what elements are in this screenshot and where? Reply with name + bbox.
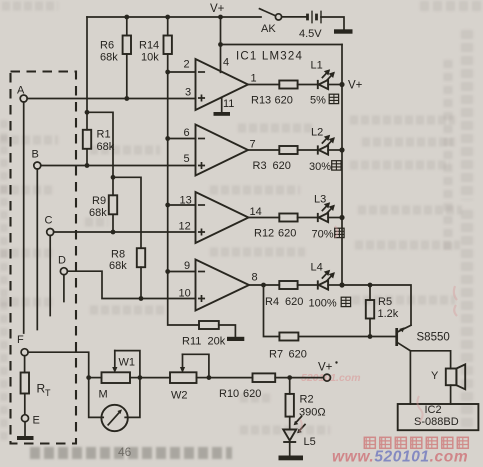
svg-text:R4: R4 — [265, 296, 279, 308]
node pin13 — [165, 203, 170, 208]
node W1 right junction — [138, 375, 143, 380]
label 100% orange — [309, 297, 351, 309]
wire R7 to base — [298, 336, 396, 338]
node R1 top — [85, 110, 90, 115]
wire pin2 — [168, 71, 196, 73]
wire pin 4 — [220, 45, 222, 73]
svg-text:R3: R3 — [253, 160, 267, 172]
LED L1 — [318, 70, 334, 89]
svg-text:F: F — [17, 334, 24, 346]
svg-text:R10: R10 — [219, 388, 239, 400]
svg-text:A: A — [17, 85, 25, 97]
svg-text:68k: 68k — [100, 52, 118, 64]
resistor R8 — [109, 248, 145, 298]
svg-text:AK: AK — [261, 23, 276, 35]
LED L3 — [318, 203, 334, 222]
resistor R6 — [100, 17, 131, 99]
op-amp U1A — [184, 59, 257, 111]
svg-text:L1: L1 — [311, 60, 323, 72]
resistor R9 — [89, 177, 117, 232]
svg-text:68k: 68k — [109, 260, 127, 272]
resistor R7 — [269, 333, 307, 361]
svg-text:5%: 5% — [310, 95, 326, 107]
wire pin12 from C — [54, 231, 196, 233]
svg-text:6: 6 — [184, 127, 190, 139]
svg-text:14: 14 — [250, 206, 262, 218]
resistor R10 — [219, 373, 275, 400]
node R5 bottom — [368, 334, 373, 339]
ground L5 — [289, 442, 291, 456]
resistor R3 — [253, 146, 298, 172]
wire R10 to node — [275, 377, 290, 379]
wire V+ branch to pin4 and LED rail — [220, 17, 222, 45]
svg-text:W1: W1 — [119, 357, 136, 369]
svg-text:R5: R5 — [378, 296, 392, 308]
terminal B — [34, 162, 41, 169]
potentiometer W1 — [89, 351, 140, 383]
wire L4 to rail node — [328, 284, 342, 286]
svg-text:V+: V+ — [348, 80, 363, 92]
node divider mid — [111, 175, 116, 180]
resistor R2 — [286, 378, 326, 430]
svg-text:R12: R12 — [254, 228, 274, 240]
resistor R11 and ground — [182, 321, 244, 348]
wire pin5 from B — [41, 165, 196, 167]
svg-text:620: 620 — [275, 95, 293, 107]
row 3 output: wire pin14 to R12 — [249, 217, 280, 219]
svg-text:R2: R2 — [300, 394, 314, 406]
wire R4 to L4 — [298, 284, 318, 286]
wire R12 to L3 — [298, 217, 318, 219]
svg-text:390Ω: 390Ω — [299, 407, 326, 419]
potentiometer W2 — [170, 354, 209, 401]
svg-text:E: E — [33, 415, 40, 427]
svg-text:L3: L3 — [314, 194, 326, 206]
wire pin10 from D — [67, 271, 195, 298]
svg-text:68k: 68k — [97, 141, 115, 153]
svg-text:70%: 70% — [312, 229, 334, 241]
svg-text:1.2k: 1.2k — [378, 308, 399, 320]
node R6 top — [124, 15, 129, 20]
node R9 bottom — [111, 230, 116, 235]
node R1 bottom — [85, 163, 90, 168]
wire probe A — [23, 102, 25, 333]
svg-text:1: 1 — [251, 73, 257, 85]
svg-text:R8: R8 — [111, 249, 125, 261]
node pin6 — [165, 136, 170, 141]
terminal E — [22, 415, 29, 422]
wire R13 to L1 — [298, 84, 318, 86]
svg-text:R14: R14 — [139, 40, 159, 52]
meter M — [89, 378, 140, 432]
svg-text:D: D — [58, 255, 66, 267]
label 30% green — [309, 161, 341, 173]
wire divider branch — [87, 112, 113, 177]
svg-text:620: 620 — [278, 228, 296, 240]
svg-text:68k: 68k — [89, 207, 107, 219]
wire pin13 — [168, 204, 196, 206]
row 2 output: wire pin7 to R3 — [248, 149, 279, 151]
svg-text:R6: R6 — [100, 40, 114, 52]
wire R3 to L2 — [298, 149, 318, 151]
label 5% red — [310, 94, 339, 106]
ground pin 11 — [214, 98, 235, 116]
wire L2 to rail — [328, 149, 342, 151]
wire W2 to R10 — [209, 377, 253, 379]
svg-text:W2: W2 — [171, 390, 188, 402]
svg-text:30%: 30% — [309, 161, 331, 173]
svg-text:R13: R13 — [251, 95, 271, 107]
svg-text:S8550: S8550 — [417, 332, 450, 344]
svg-text:2: 2 — [184, 59, 190, 71]
svg-text:620: 620 — [285, 296, 303, 308]
terminal V+* — [324, 374, 331, 381]
wire V+ left drop — [86, 17, 88, 112]
svg-text:IC1 LM324: IC1 LM324 — [236, 51, 303, 63]
LED L5 — [283, 417, 316, 449]
svg-text:IC2: IC2 — [425, 404, 442, 416]
wire L3 to rail — [328, 217, 342, 219]
node R6 bottom — [124, 96, 129, 101]
node pin2 — [165, 70, 170, 75]
svg-text:R1: R1 — [97, 129, 111, 141]
svg-text:620: 620 — [243, 388, 261, 400]
svg-text:R9: R9 — [92, 195, 106, 207]
wire L1 to rail — [328, 84, 342, 86]
resistor R1 — [83, 112, 115, 165]
svg-text:M: M — [99, 389, 108, 401]
switch AK — [260, 9, 306, 35]
wire pin6 — [168, 138, 196, 140]
svg-text:46: 46 — [118, 445, 132, 459]
svg-text:Y: Y — [431, 370, 439, 382]
terminal A — [20, 95, 27, 102]
svg-text:T: T — [45, 388, 51, 398]
terminal D — [60, 268, 67, 275]
svg-text:L5: L5 — [304, 436, 316, 448]
wire W1 to W2 — [140, 377, 170, 379]
svg-text:B: B — [32, 149, 39, 161]
resistor R4 — [265, 281, 303, 308]
terminal C — [47, 229, 54, 236]
node R5 top — [368, 283, 373, 288]
row 4 output: wire pin8 to R4 — [249, 284, 279, 286]
resistor R14 — [139, 17, 172, 72]
IC2 box — [398, 404, 479, 430]
wire node to V+ terminal — [290, 377, 324, 379]
resistor R13 — [251, 81, 298, 107]
wire probe C — [49, 236, 51, 316]
op-amp U1D — [179, 260, 258, 311]
svg-text:100%: 100% — [309, 298, 337, 310]
terminal F — [21, 349, 28, 356]
svg-text:9: 9 — [184, 260, 190, 272]
speaker Y — [431, 364, 465, 404]
node W2 right junction — [207, 375, 212, 380]
svg-text:L2: L2 — [311, 127, 323, 139]
node R14 top — [165, 15, 170, 20]
svg-text:11: 11 — [223, 98, 234, 110]
wire pin3 from A — [27, 98, 195, 100]
battery 4.5V — [299, 11, 344, 40]
svg-text:R7: R7 — [269, 349, 283, 361]
ground battery — [334, 29, 353, 33]
LED L2 — [318, 136, 334, 155]
svg-text:C: C — [45, 215, 53, 227]
svg-text:12: 12 — [179, 221, 191, 233]
node pin8 branch — [261, 283, 266, 288]
svg-text:7: 7 — [250, 139, 256, 151]
wire collector to speaker — [410, 351, 450, 369]
wire collector down to IC2 — [409, 351, 411, 404]
node R8 bottom — [139, 296, 144, 301]
thermistor RT — [21, 356, 51, 415]
ground E — [24, 422, 26, 436]
svg-text:4.5V: 4.5V — [299, 28, 322, 40]
label 70% yellow — [312, 228, 345, 240]
wire F to W1 — [28, 352, 89, 377]
wire inverting bus — [168, 72, 199, 325]
wire top V+ rail — [87, 16, 261, 18]
svg-text:10k: 10k — [141, 52, 159, 64]
svg-text:www.520101.com: www.520101.com — [332, 449, 468, 466]
resistor R12 — [254, 214, 298, 240]
dashed probe box — [11, 72, 77, 444]
svg-text:620: 620 — [289, 349, 307, 361]
resistor R5 — [366, 285, 399, 337]
svg-text:R11: R11 — [182, 336, 201, 348]
svg-text:L4: L4 — [311, 262, 323, 274]
LED L4 — [318, 271, 334, 290]
wire rail to emitter riser — [342, 285, 411, 325]
svg-text:V+: V+ — [210, 3, 225, 15]
wire branch to R8 — [113, 177, 141, 248]
svg-text:620: 620 — [273, 160, 291, 172]
svg-text:5: 5 — [184, 153, 190, 165]
watermark red site name — [364, 437, 468, 448]
op-amp U1C — [179, 192, 262, 243]
node R2 top junction — [287, 375, 292, 380]
wire V+ LED rail — [341, 45, 343, 286]
wire pin9 — [168, 271, 196, 273]
wire probe D — [63, 275, 65, 302]
wire pin8 down to R7 — [264, 285, 280, 337]
row 1 output: wire pin1 to R13 — [248, 84, 279, 86]
node pin9 — [165, 269, 170, 274]
node V+ branch — [218, 15, 223, 20]
svg-text:8: 8 — [252, 272, 258, 284]
svg-text:3: 3 — [185, 87, 191, 99]
svg-text:20k: 20k — [208, 336, 226, 348]
svg-text:S-088BD: S-088BD — [414, 416, 459, 428]
transistor Q1 S8550 — [397, 325, 450, 351]
wire probe B — [36, 169, 38, 330]
op-amp U1B — [184, 125, 256, 176]
svg-text:4: 4 — [223, 57, 229, 69]
svg-text:V+: V+ — [318, 362, 333, 374]
